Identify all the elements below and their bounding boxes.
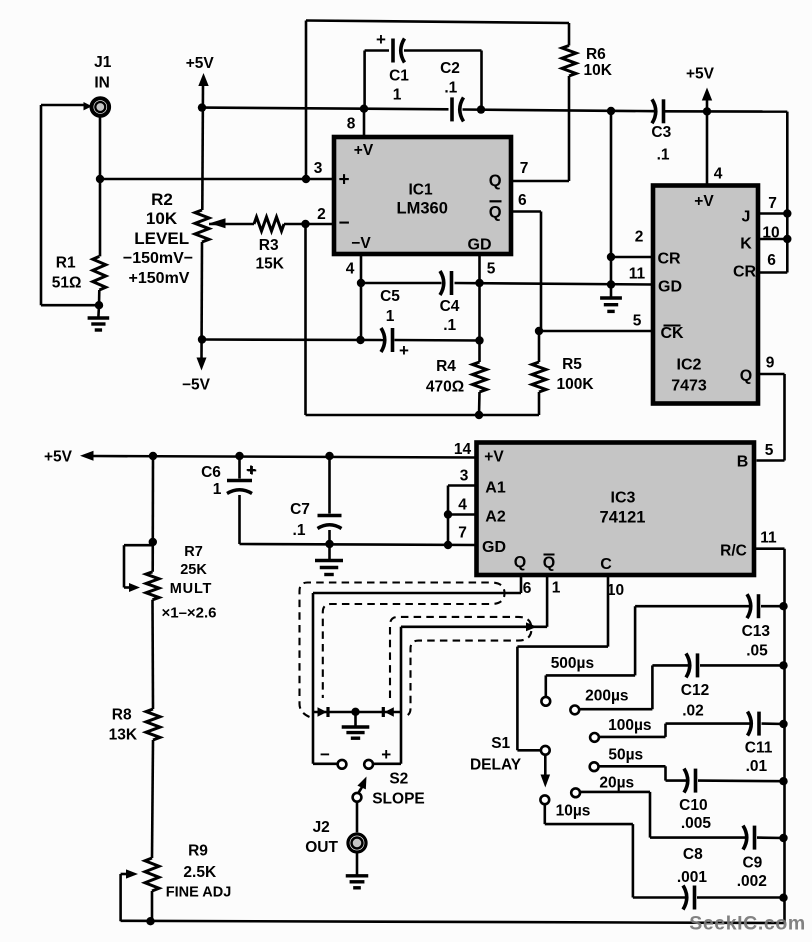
svg-text:C13: C13 xyxy=(742,623,771,640)
svg-text:C11: C11 xyxy=(745,740,773,757)
svg-text:+: + xyxy=(399,341,409,360)
svg-text:R2: R2 xyxy=(151,190,173,209)
svg-text:S1: S1 xyxy=(491,735,510,752)
svg-text:C1: C1 xyxy=(389,68,409,85)
svg-text:.05: .05 xyxy=(746,643,768,660)
svg-text:+: + xyxy=(381,745,391,764)
svg-text:+V: +V xyxy=(694,193,714,210)
svg-text:14: 14 xyxy=(454,441,472,458)
svg-text:.005: .005 xyxy=(681,815,712,832)
svg-text:Q: Q xyxy=(489,172,502,190)
svg-text:LM360: LM360 xyxy=(397,200,448,218)
svg-text:.1: .1 xyxy=(443,317,456,334)
svg-text:C12: C12 xyxy=(681,682,709,699)
svg-text:4: 4 xyxy=(346,261,355,278)
svg-text:GD: GD xyxy=(468,237,492,254)
svg-text:C3: C3 xyxy=(651,124,671,141)
svg-text:Q: Q xyxy=(489,204,502,222)
svg-text:SLOPE: SLOPE xyxy=(372,791,425,808)
svg-text:CK: CK xyxy=(660,325,684,342)
svg-text:C5: C5 xyxy=(380,288,400,305)
svg-text:R8: R8 xyxy=(112,707,132,724)
svg-text:.01: .01 xyxy=(746,758,768,775)
svg-text:500µs: 500µs xyxy=(551,655,594,672)
svg-text:11: 11 xyxy=(629,266,646,283)
svg-text:IC1: IC1 xyxy=(408,182,433,199)
svg-text:R4: R4 xyxy=(436,358,456,375)
svg-text:20µs: 20µs xyxy=(599,775,634,792)
svg-text:9: 9 xyxy=(766,355,775,372)
svg-text:5: 5 xyxy=(633,313,642,330)
svg-text:8: 8 xyxy=(347,116,356,133)
svg-text:−: − xyxy=(320,745,330,764)
svg-text:4: 4 xyxy=(714,166,723,183)
svg-text:100K: 100K xyxy=(556,376,594,393)
svg-text:.02: .02 xyxy=(682,703,704,720)
svg-text:FINE ADJ: FINE ADJ xyxy=(166,885,232,901)
svg-text:1: 1 xyxy=(213,481,222,498)
svg-text:C6: C6 xyxy=(201,464,221,481)
svg-text:+5V: +5V xyxy=(186,55,215,72)
svg-text:+: + xyxy=(376,30,386,49)
svg-text:C: C xyxy=(600,556,612,573)
svg-text:10K: 10K xyxy=(146,209,178,228)
svg-text:6: 6 xyxy=(523,580,532,597)
svg-text:6: 6 xyxy=(767,252,776,269)
svg-text:J: J xyxy=(742,209,751,226)
svg-text:6: 6 xyxy=(518,192,527,209)
svg-text:5: 5 xyxy=(765,442,774,459)
svg-text:−: − xyxy=(338,213,349,234)
svg-text:R5: R5 xyxy=(562,356,582,373)
svg-text:7: 7 xyxy=(520,160,529,177)
svg-text:.001: .001 xyxy=(677,869,708,886)
svg-text:R1: R1 xyxy=(56,255,76,272)
svg-text:200µs: 200µs xyxy=(585,688,628,705)
svg-text:IC3: IC3 xyxy=(611,490,636,507)
svg-text:Q: Q xyxy=(543,555,555,572)
svg-text:OUT: OUT xyxy=(305,839,338,856)
svg-text:GD: GD xyxy=(658,279,682,296)
svg-text:1: 1 xyxy=(386,308,395,325)
svg-text:74121: 74121 xyxy=(600,509,646,527)
svg-text:.1: .1 xyxy=(293,522,306,539)
svg-text:4: 4 xyxy=(458,497,467,514)
svg-text:7: 7 xyxy=(768,195,777,212)
svg-text:C8: C8 xyxy=(683,846,703,863)
svg-text:25K: 25K xyxy=(180,562,207,578)
svg-text:IC2: IC2 xyxy=(677,357,702,374)
svg-text:Q: Q xyxy=(740,368,752,385)
svg-text:2: 2 xyxy=(635,229,644,246)
svg-text:Q: Q xyxy=(514,554,526,571)
svg-text:S2: S2 xyxy=(389,771,408,788)
svg-text:J2: J2 xyxy=(313,819,330,836)
svg-text:+: + xyxy=(338,170,349,191)
svg-text:7: 7 xyxy=(458,525,467,542)
svg-text:1: 1 xyxy=(552,580,561,597)
svg-text:+V: +V xyxy=(354,142,374,159)
svg-text:13K: 13K xyxy=(109,727,138,744)
svg-text:K: K xyxy=(740,236,752,253)
svg-text:R7: R7 xyxy=(184,544,203,560)
svg-text:50µs: 50µs xyxy=(608,747,643,764)
svg-text:GD: GD xyxy=(482,539,506,556)
svg-text:B: B xyxy=(737,454,749,471)
svg-text:C9: C9 xyxy=(742,855,762,872)
svg-text:100µs: 100µs xyxy=(608,717,651,734)
svg-text:2: 2 xyxy=(317,206,326,223)
svg-text:C10: C10 xyxy=(679,797,707,814)
svg-text:51Ω: 51Ω xyxy=(52,275,82,292)
svg-text:R/C: R/C xyxy=(720,543,747,560)
svg-text:MULT: MULT xyxy=(170,581,212,597)
svg-text:1: 1 xyxy=(393,87,402,104)
svg-text:R9: R9 xyxy=(188,843,208,860)
svg-text:3: 3 xyxy=(314,160,323,177)
svg-text:SeekIC.com: SeekIC.com xyxy=(689,913,806,935)
svg-text:+5V: +5V xyxy=(44,449,73,466)
svg-text:.1: .1 xyxy=(444,80,457,97)
svg-text:10µs: 10µs xyxy=(556,803,591,820)
svg-text:10: 10 xyxy=(607,582,624,599)
svg-text:3: 3 xyxy=(460,468,469,485)
svg-text:R3: R3 xyxy=(259,237,279,254)
svg-text:5: 5 xyxy=(487,261,496,278)
svg-text:CR: CR xyxy=(657,251,681,268)
svg-text:−V: −V xyxy=(351,235,371,252)
svg-text:J1: J1 xyxy=(94,54,112,71)
svg-text:IN: IN xyxy=(94,75,110,92)
svg-text:R6: R6 xyxy=(586,46,606,63)
svg-text:−150mV−: −150mV− xyxy=(123,250,193,267)
svg-text:2.5K: 2.5K xyxy=(183,864,217,881)
svg-text:LEVEL: LEVEL xyxy=(134,229,189,248)
svg-text:+: + xyxy=(246,461,256,480)
svg-text:+5V: +5V xyxy=(686,66,715,83)
svg-text:.1: .1 xyxy=(657,147,670,164)
svg-text:10K: 10K xyxy=(583,62,612,79)
svg-text:15K: 15K xyxy=(255,256,284,273)
svg-text:A1: A1 xyxy=(485,480,506,497)
svg-text:CR: CR xyxy=(733,264,757,281)
svg-text:.002: .002 xyxy=(737,873,767,890)
svg-text:11: 11 xyxy=(760,530,777,547)
svg-text:7473: 7473 xyxy=(671,378,707,395)
svg-text:−5V: −5V xyxy=(182,377,211,394)
svg-text:DELAY: DELAY xyxy=(470,757,522,774)
svg-text:+150mV: +150mV xyxy=(129,270,190,287)
svg-text:C7: C7 xyxy=(290,501,310,518)
svg-text:×1–×2.6: ×1–×2.6 xyxy=(161,605,216,622)
svg-text:+V: +V xyxy=(484,449,504,466)
svg-text:A2: A2 xyxy=(485,509,506,526)
svg-text:C2: C2 xyxy=(440,60,460,77)
svg-text:10: 10 xyxy=(762,225,779,242)
svg-text:470Ω: 470Ω xyxy=(426,379,464,396)
svg-text:C4: C4 xyxy=(440,298,460,315)
